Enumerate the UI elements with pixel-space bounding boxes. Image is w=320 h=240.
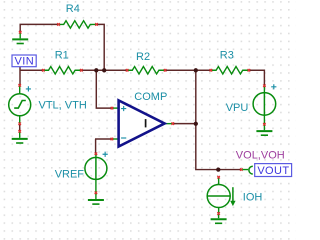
svg-text:IOH: IOH	[243, 192, 263, 204]
svg-text:VIN: VIN	[15, 55, 35, 67]
svg-text:COMP: COMP	[134, 91, 167, 103]
svg-text:VOL,VOH: VOL,VOH	[236, 149, 285, 161]
svg-text:VPU: VPU	[226, 102, 249, 114]
svg-text:VTL, VTH: VTL, VTH	[39, 100, 87, 112]
svg-text:R1: R1	[55, 49, 69, 61]
svg-text:VOUT: VOUT	[257, 165, 289, 177]
svg-text:R3: R3	[220, 50, 234, 62]
svg-text:R2: R2	[136, 51, 150, 63]
svg-text:VREF: VREF	[55, 169, 85, 181]
svg-text:R4: R4	[66, 3, 80, 15]
